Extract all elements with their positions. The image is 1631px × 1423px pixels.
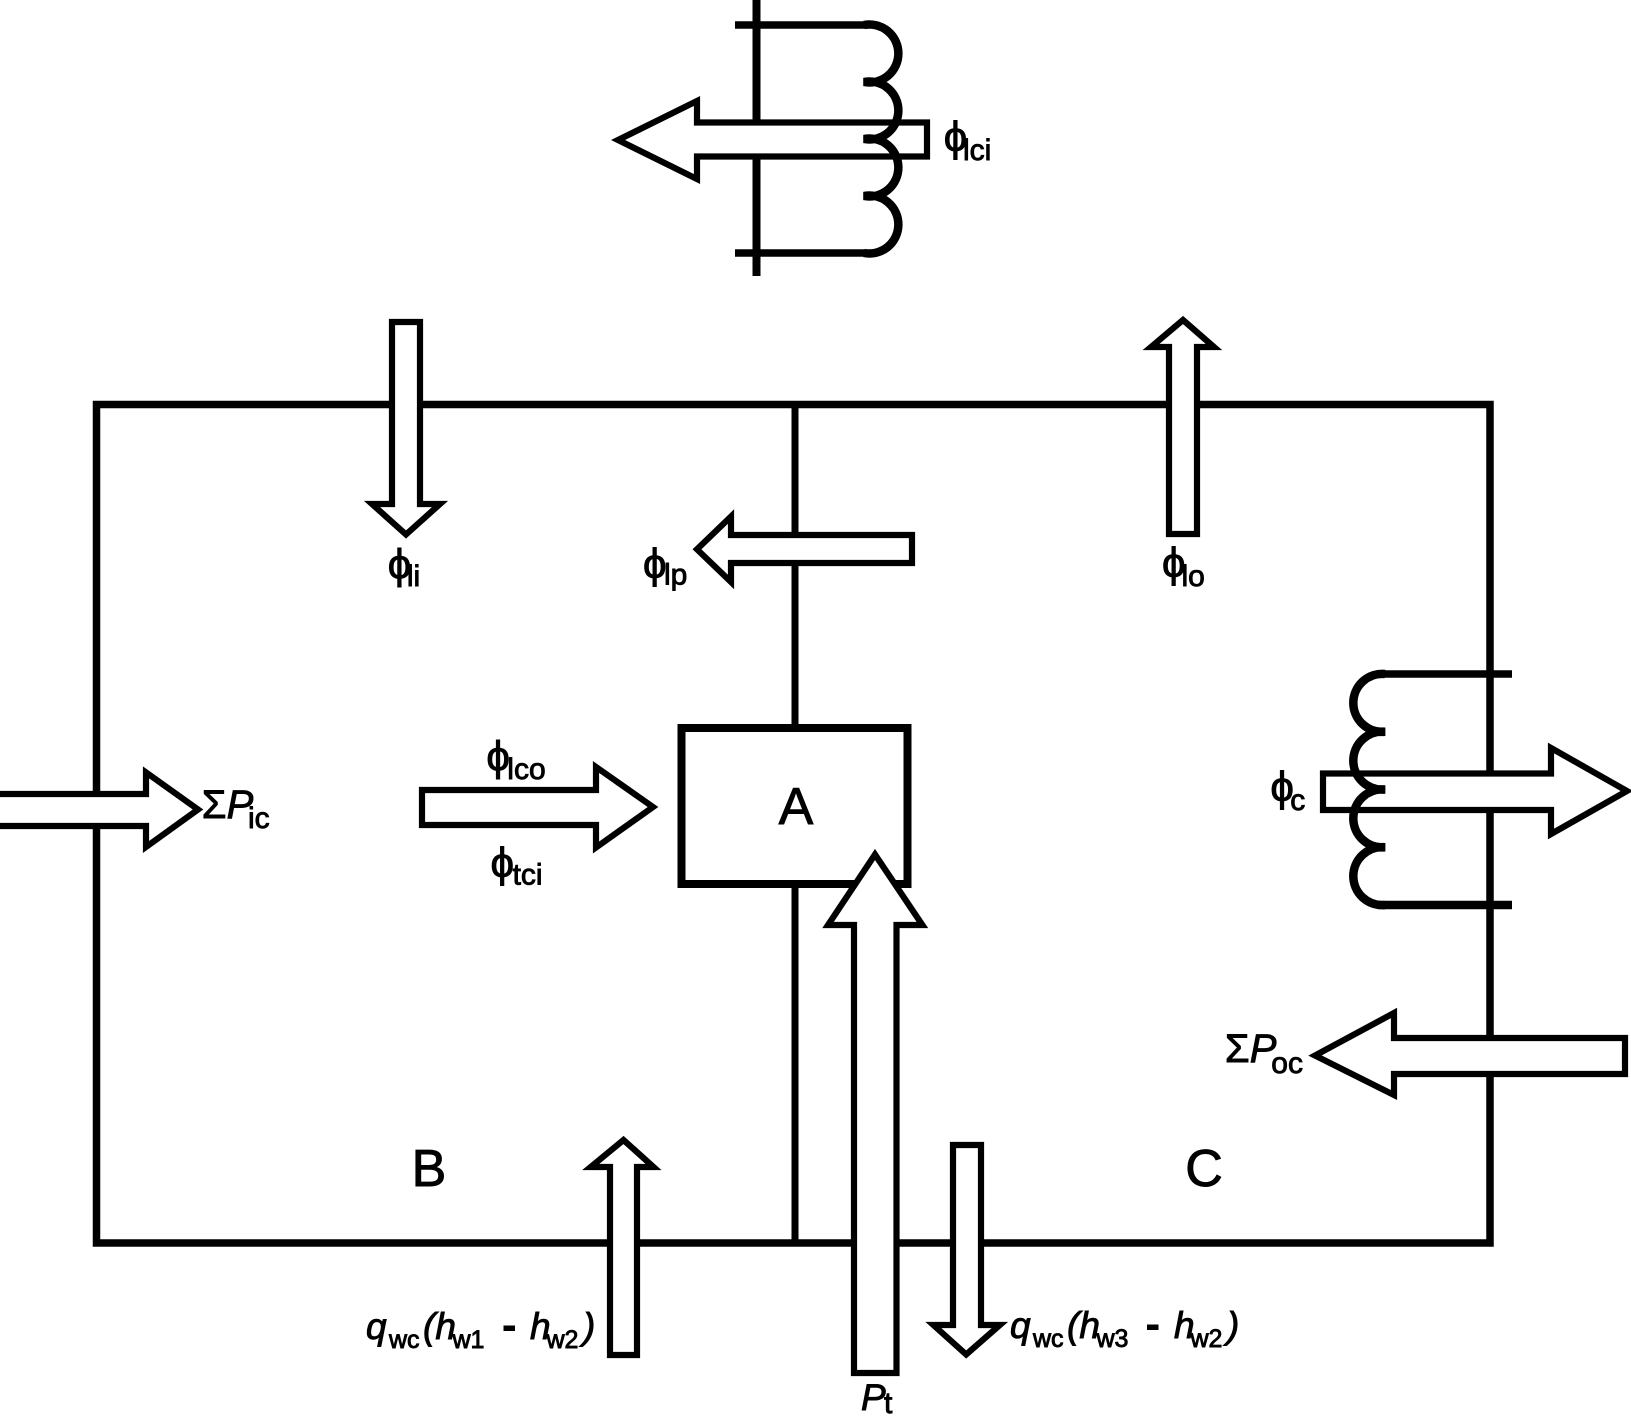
svg-text:w1: w1 xyxy=(452,1326,485,1354)
svg-text:A: A xyxy=(779,778,814,836)
label phi_lci xyxy=(944,113,992,167)
label Sigma-P_oc xyxy=(1225,1027,1303,1080)
svg-text:Σ: Σ xyxy=(1225,1027,1250,1071)
svg-text:lo: lo xyxy=(1182,560,1205,593)
wire: top feed vertical line xyxy=(753,0,761,276)
svg-text:ϕ: ϕ xyxy=(643,540,667,587)
svg-text:t: t xyxy=(884,1387,893,1420)
arrow phi_lco / phi_tci (right, into A) xyxy=(422,767,653,848)
svg-text:wc: wc xyxy=(1032,1325,1064,1353)
svg-text:lp: lp xyxy=(664,559,687,592)
svg-text:q: q xyxy=(366,1306,387,1347)
svg-text:C: C xyxy=(1185,1140,1223,1198)
svg-text:(h: (h xyxy=(1067,1305,1100,1346)
boundary rectangle (system boundary B/C) xyxy=(97,405,1491,1244)
svg-text:w3: w3 xyxy=(1096,1325,1129,1353)
wire: bottom stub of coil L1 xyxy=(735,249,867,257)
svg-text:Σ: Σ xyxy=(202,783,227,827)
wire: top stub of coil L1 xyxy=(735,21,867,29)
arrow phi_lo (up) xyxy=(1151,320,1214,534)
svg-text:q: q xyxy=(1010,1305,1031,1346)
label phi_lo xyxy=(1162,539,1205,593)
arrow phi_li (down) xyxy=(372,322,440,535)
arrow q_wc(h_w3-h_w2) (down) xyxy=(933,1145,1000,1355)
label phi_lco xyxy=(486,733,545,786)
label phi_lp xyxy=(643,540,687,592)
arrow Sigma-P_oc (left) xyxy=(1315,1013,1625,1095)
inductor coil L2 (right, condenser coil) xyxy=(1353,674,1385,905)
svg-text:wc: wc xyxy=(388,1326,420,1354)
svg-text:w2: w2 xyxy=(546,1326,579,1354)
wire: bottom stub of coil L2 xyxy=(1378,901,1512,910)
svg-text:lci: lci xyxy=(963,134,991,167)
svg-text:B: B xyxy=(412,1140,447,1198)
svg-text:w2: w2 xyxy=(1190,1325,1223,1353)
label P_t xyxy=(861,1377,893,1420)
svg-text:(h: (h xyxy=(423,1306,456,1347)
arrow Sigma-P_ic (right) xyxy=(0,772,198,847)
arrow phi_lci (left) xyxy=(618,101,927,179)
box A xyxy=(682,728,908,884)
arrow phi_lp (left) xyxy=(697,517,912,583)
svg-text:lco: lco xyxy=(507,753,545,786)
arrow phi_c (right, through condenser coil) xyxy=(1323,748,1627,834)
svg-text:li: li xyxy=(407,560,420,593)
inductor coil L1 (top, evaporator coil) xyxy=(864,25,898,254)
arrow P_t (up, into A) xyxy=(828,855,922,1374)
arrow q_wc(h_w1-h_w2) (up) xyxy=(591,1140,654,1355)
svg-text:ϕ: ϕ xyxy=(491,839,515,886)
label phi_li xyxy=(388,541,421,593)
svg-text:ic: ic xyxy=(248,802,270,835)
svg-text:tci: tci xyxy=(513,859,543,892)
svg-text:P: P xyxy=(861,1377,886,1418)
svg-text:oc: oc xyxy=(1271,1047,1303,1080)
wire: top stub of coil L2 xyxy=(1378,670,1512,678)
label phi_tci xyxy=(491,839,543,892)
label q_wc(h_w1 - h_w2) xyxy=(366,1306,595,1354)
label q_wc(h_w3 - h_w2) xyxy=(1010,1305,1239,1353)
label Sigma-P_ic xyxy=(202,783,270,835)
wire: divider between zone B and zone C xyxy=(792,405,799,1244)
label phi_c xyxy=(1270,763,1305,817)
svg-text:c: c xyxy=(1290,784,1305,817)
